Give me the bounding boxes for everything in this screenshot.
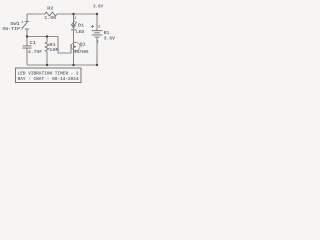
svg-text:LED VIBRATION TIMER - 2: LED VIBRATION TIMER - 2	[18, 70, 79, 76]
svg-text:2N7000: 2N7000	[74, 50, 89, 55]
svg-text:2: 2	[21, 28, 23, 32]
wire node rail	[27, 36, 58, 38]
LED D1 cathode bar	[71, 29, 76, 31]
wire Q1 source to bottom rail	[73, 52, 75, 66]
svg-text:10M: 10M	[49, 48, 59, 53]
transistor Q1 source arrow	[74, 46, 76, 48]
wire top rail left of R2	[27, 13, 45, 15]
wire LED anode lead	[73, 14, 75, 25]
svg-text:C1: C1	[30, 41, 37, 46]
title block box	[16, 68, 82, 83]
switch SW1	[22, 22, 29, 30]
svg-text:RAY - CHAT - 08-14-2024: RAY - CHAT - 08-14-2024	[18, 76, 79, 82]
junction node rail / R1	[46, 35, 48, 37]
LED D1 triangle	[71, 25, 76, 30]
wire R1 bottom lead	[46, 52, 48, 66]
svg-text:4.7UF: 4.7UF	[28, 50, 42, 55]
background	[0, 0, 120, 88]
wire LED to Q1 drain	[73, 30, 75, 42]
wire gate path	[58, 37, 71, 54]
wire bottom rail	[27, 64, 97, 66]
LED D1 light arrows	[71, 21, 77, 26]
junction bottom rail / battery	[96, 64, 98, 66]
svg-text:SW-TIP: SW-TIP	[2, 27, 20, 32]
wire left drop to switch	[26, 14, 28, 22]
svg-text:D1: D1	[78, 23, 84, 28]
svg-text:B1: B1	[104, 31, 110, 36]
junction bottom rail / R1	[46, 64, 48, 66]
resistor R1	[45, 42, 49, 52]
svg-text:3.6V: 3.6V	[104, 36, 116, 41]
transistor Q1 channel and stubs	[74, 42, 77, 52]
battery plus sign	[91, 25, 94, 28]
wire C1 bottom lead	[26, 48, 28, 65]
resistor R2	[45, 12, 57, 16]
svg-text:R2: R2	[47, 6, 54, 11]
svg-text:LED: LED	[76, 30, 85, 35]
wire R1 top lead	[46, 37, 48, 43]
junction node top rail / battery	[96, 13, 98, 15]
junction node top rail / LED	[72, 13, 74, 15]
svg-text:1: 1	[97, 40, 99, 44]
capacitor C1	[23, 46, 32, 48]
wire battery top lead	[96, 14, 98, 31]
svg-text:2: 2	[74, 17, 76, 21]
wire switch to node rail	[26, 29, 28, 37]
wire battery bottom lead	[96, 37, 98, 65]
svg-text:2: 2	[98, 25, 100, 29]
junction bottom rail / Q1	[72, 64, 74, 66]
svg-text:3.6V: 3.6V	[93, 5, 103, 10]
svg-text:1.0K: 1.0K	[44, 16, 56, 21]
svg-text:Q1: Q1	[80, 43, 86, 48]
wire top rail right of R2	[57, 13, 97, 15]
junction node rail / C1	[26, 35, 28, 37]
battery B1 plates	[92, 31, 103, 37]
svg-text:1: 1	[21, 21, 23, 25]
transistor Q1 envelope circle	[71, 42, 80, 51]
wire C1 top lead	[26, 37, 28, 46]
